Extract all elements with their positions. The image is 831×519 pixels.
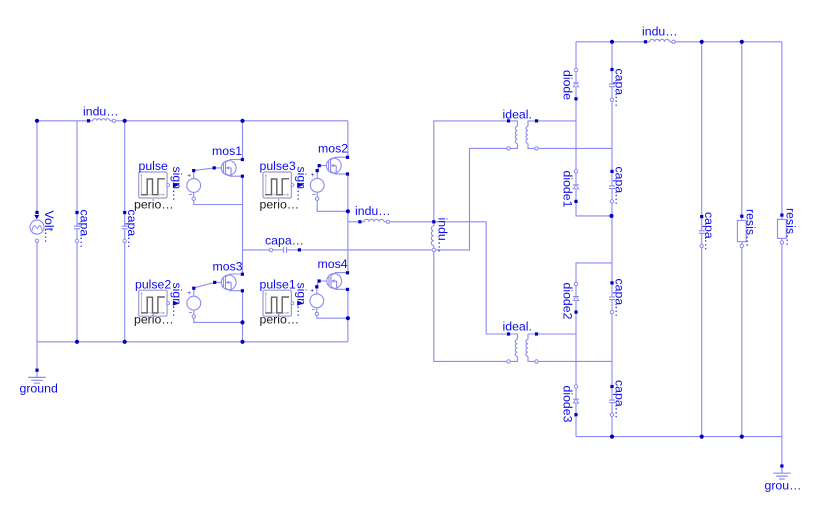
gate node square mos2 [318, 164, 321, 167]
wire mos3 source to bottom rail [242, 291, 244, 342]
svg-text:capa…: capa… [125, 210, 139, 249]
svg-text:resis…: resis… [784, 208, 798, 246]
wire diode1 to mid node [576, 201, 612, 216]
svg-text:+: + [310, 288, 314, 295]
label sign3 [294, 167, 308, 202]
wire series capacitor to transformer1 minus [301, 148, 507, 250]
svg-text:perio…: perio… [260, 313, 300, 327]
wire capacitor column 2 lower [124, 241, 126, 342]
wire pulse1 to sign4 gate link [316, 281, 327, 287]
label capa rect3 [613, 279, 627, 318]
junction secondary mid node [609, 214, 613, 218]
svg-text:diode1: diode1 [561, 171, 575, 208]
wire mos1 drain to top rail [242, 121, 244, 160]
label ground [20, 382, 58, 396]
svg-text:capa…: capa… [613, 69, 627, 108]
diode diode3 [573, 385, 579, 417]
wire node B to middle inductor [348, 221, 358, 223]
svg-text:perio…: perio… [260, 198, 300, 212]
svg-text:capa…: capa… [613, 167, 627, 206]
svg-text:−: − [189, 192, 193, 199]
junction mos4 source sign4 [346, 316, 350, 320]
label capa rect1 [613, 69, 627, 108]
wire diode chain top [575, 42, 577, 70]
label pulse3 [260, 159, 296, 173]
svg-text:ideal.: ideal. [503, 320, 532, 334]
pin mos4 drain [346, 271, 349, 274]
svg-text:Volt…: Volt… [42, 211, 56, 244]
label ideal lower [503, 320, 532, 334]
svg-text:sign…: sign… [294, 283, 308, 318]
svg-text:indu…: indu… [642, 25, 678, 39]
wire transformer2 secondary minus to capacitor chain [537, 360, 613, 362]
capacitor capa (input 2) [122, 211, 128, 243]
mosfet mos1 [221, 160, 242, 177]
svg-text:capa…: capa… [265, 234, 304, 248]
svg-text:diode3: diode3 [561, 386, 575, 423]
label capa series [265, 234, 304, 248]
junction bottom rail right at capa3 [610, 435, 614, 439]
svg-text:−: − [312, 307, 316, 314]
mosfet mos3 [221, 274, 242, 291]
label indu magnetizing [436, 218, 450, 254]
ground right [773, 464, 791, 479]
label ideal upper [503, 108, 532, 122]
junction node B sign3 [346, 209, 350, 213]
signal voltage sign2 [187, 287, 201, 318]
wire resistor2 column lower [781, 243, 783, 437]
label periodic pulse3 [260, 198, 300, 212]
svg-text:mos2: mos2 [318, 142, 348, 156]
label resis 2 [784, 208, 798, 246]
wire transformer2 secondary plus to diode chain [537, 333, 577, 335]
label periodic pulse1 [260, 313, 300, 327]
label pulse2 [135, 277, 171, 291]
wire junction to transformer1 plus [434, 121, 507, 222]
svg-text:indu…: indu… [83, 105, 119, 119]
svg-text:perio…: perio… [134, 313, 174, 327]
wire load resistor column [741, 42, 743, 216]
pulse block pulse2 [139, 290, 180, 316]
label ground right [765, 479, 802, 493]
wire diode to diode1 [575, 99, 577, 172]
wire capa to capa1 [611, 100, 613, 172]
svg-text:+: + [187, 290, 191, 297]
inductor indu (input filter) [87, 119, 116, 123]
wire mos1 source to mos3 drain (node A) [242, 176, 244, 275]
label diode2 [561, 283, 575, 320]
wire middle inductor to junction and transformer2 plus [390, 222, 507, 334]
svg-text:diode2: diode2 [561, 283, 575, 320]
pin mos3 source [241, 289, 244, 292]
wire left source column bottom [36, 243, 38, 342]
label Volt [42, 211, 56, 244]
svg-text:pulse3: pulse3 [260, 159, 296, 173]
wire diode2 to diode3 [575, 312, 577, 386]
capacitor capa (input 1) [74, 211, 80, 243]
capacitor capa rect2 [609, 170, 615, 203]
signal voltage sign3 [310, 169, 324, 200]
capacitor capa rect3 [609, 281, 615, 314]
wire capa3 to bottom rail [611, 415, 613, 437]
pin mos1 drain [241, 158, 244, 161]
resistor resis 2 [778, 214, 787, 245]
label pulse [139, 159, 169, 173]
svg-text:perio…: perio… [134, 198, 174, 212]
svg-text:ideal.: ideal. [503, 108, 532, 122]
wire capacitor column 2 [124, 121, 126, 213]
label mos1 [212, 144, 242, 158]
wire top rail right (segment 1) [576, 41, 646, 43]
transformer ideal1 (lower) [507, 332, 538, 363]
junction bottom rail at capa2 [123, 340, 127, 344]
pulse block pulse1 [263, 290, 304, 316]
label indu middle [355, 204, 391, 218]
svg-text:sign…: sign… [170, 167, 184, 202]
junction bottom rail at capa [75, 340, 79, 344]
capacitor capa output [699, 215, 705, 248]
label diode1 [561, 171, 575, 208]
label mos3 [213, 260, 243, 274]
svg-text:+: + [311, 172, 315, 179]
label resis load [744, 209, 758, 247]
label indu output [642, 25, 678, 39]
wire mos4 source to bottom rail [347, 288, 349, 342]
wire bottom rail right [576, 436, 782, 438]
svg-text:capa…: capa… [702, 212, 716, 251]
wire transformer1 secondary plus to diode chain [537, 120, 577, 122]
svg-text:capa…: capa… [613, 380, 627, 419]
label sign2 [170, 283, 184, 318]
wire load resistor column lower [741, 246, 743, 437]
svg-text:sign…: sign… [170, 283, 184, 318]
svg-text:grou…: grou… [765, 479, 802, 493]
label periodic pulse [134, 198, 174, 212]
svg-text:ground: ground [20, 382, 58, 396]
svg-text:resis…: resis… [744, 209, 758, 247]
wire mid node to diode2 [576, 263, 612, 284]
wire sign1 minus to node A [194, 200, 243, 204]
signal voltage sign1 [187, 169, 201, 200]
wire capacitor chain top [611, 42, 613, 70]
voltage source Volt [30, 211, 44, 243]
svg-text:mos4: mos4 [318, 257, 348, 271]
label capa input 2 [125, 210, 139, 249]
wire pulse to sign1 gate link [194, 168, 222, 171]
label capa input 1 [78, 210, 92, 249]
diode diode [573, 68, 579, 100]
inductor indu middle [358, 219, 389, 223]
wire resistor2 column [781, 42, 783, 215]
label mos4 [318, 257, 348, 271]
label capa output [702, 212, 716, 251]
label mos2 [318, 142, 348, 156]
svg-text:−: − [312, 192, 316, 199]
gate node square mos1 [213, 166, 216, 169]
label capa rect4 [613, 380, 627, 419]
gate node square mos4 [318, 279, 321, 282]
wire sign2 minus to mos3 source [194, 318, 243, 323]
wire sign4 minus to mos4 source [317, 315, 348, 318]
svg-text:capa…: capa… [613, 279, 627, 318]
label sign4 [294, 283, 308, 318]
capacitor capa rect1 [609, 68, 615, 102]
wire capacitor column 1 [76, 121, 78, 213]
label capa rect2 [613, 167, 627, 206]
svg-text:−: − [189, 309, 193, 316]
resistor resis load [737, 215, 746, 248]
wire bottom rail left bridge [37, 341, 348, 343]
inductor indu magnetizing [431, 220, 435, 251]
wire pulse3 to sign3 gate link [317, 166, 326, 171]
inductor indu output [644, 39, 675, 43]
signal voltage sign4 [310, 285, 324, 315]
junction top rail right at resistor [740, 40, 744, 44]
svg-text:pulse: pulse [139, 159, 169, 173]
svg-text:mos3: mos3 [213, 260, 243, 274]
gate node square mos3 [213, 281, 216, 284]
junction top rail right at capa chain [610, 40, 614, 44]
junction bottom rail right at output capa [700, 435, 704, 439]
wire top rail left bridge (segment 2) [114, 120, 348, 122]
wire pulse2 to sign2 gate link [193, 282, 221, 288]
junction top rail at mos1 leg [240, 119, 244, 123]
wire magnetizing node down to transformer2 minus [434, 250, 507, 362]
transformer ideal (upper) [507, 119, 538, 150]
junction mos3 source sign2 [240, 320, 244, 324]
mosfet mos2 [326, 157, 347, 174]
label diode [561, 70, 575, 100]
wire top rail left bridge (segment 1) [37, 120, 89, 122]
capacitor capa series [269, 247, 301, 253]
svg-text:+: + [187, 172, 191, 179]
svg-text:pulse1: pulse1 [260, 277, 296, 291]
pulse block pulse [139, 172, 180, 198]
svg-text:capa…: capa… [78, 210, 92, 249]
wire top rail right (segment 2) [674, 41, 782, 43]
wire sign3 minus to node B [317, 200, 348, 212]
diode diode2 [573, 282, 579, 314]
svg-text:indu…: indu… [436, 218, 450, 254]
wire capacitor column 1 lower [76, 241, 78, 342]
svg-text:mos1: mos1 [212, 144, 242, 158]
pin mos3 drain [241, 273, 244, 276]
pulse block pulse3 [263, 172, 304, 198]
junction top rail at source [35, 119, 39, 123]
diode diode1 [573, 170, 579, 203]
junction bottom rail right at resistor [740, 435, 744, 439]
label diode3 [561, 386, 575, 423]
pin mos2 drain [346, 156, 349, 159]
wire mos2 source to mos4 drain (node B) [347, 174, 349, 273]
wire output capacitor column [701, 42, 703, 217]
pin mos4 source [346, 288, 349, 291]
wire node A to series capacitor [243, 249, 270, 251]
junction top rail right at output capa [700, 40, 704, 44]
capacitor capa rect4 [609, 385, 615, 417]
wire left source column top [36, 121, 38, 211]
wire output capacitor column lower [701, 246, 703, 437]
junction top rail at capa2 [123, 119, 127, 123]
ground left [28, 369, 46, 384]
pin mos2 source [346, 172, 349, 175]
label periodic pulse2 [134, 313, 174, 327]
wire transformer1 secondary minus to capacitor chain [537, 147, 613, 149]
svg-text:indu…: indu… [355, 204, 391, 218]
label sign1 [170, 167, 184, 202]
svg-text:pulse2: pulse2 [135, 277, 171, 291]
label pulse1 [260, 277, 296, 291]
wire mid node to capa2 [611, 263, 613, 283]
svg-text:diode: diode [561, 70, 575, 100]
wire mos2 drain to top rail [347, 121, 349, 158]
wire ground stub right [781, 437, 783, 466]
wire capa2 to capa3 [611, 312, 613, 386]
label indu input [83, 105, 119, 119]
wire diode3 to bottom rail [575, 415, 577, 437]
svg-text:sign…: sign… [294, 167, 308, 202]
junction bottom rail at mos3 leg [240, 340, 244, 344]
wire capa1 to mid node [611, 201, 613, 263]
wire ground stub left [36, 342, 38, 370]
pin mos1 source [241, 175, 244, 178]
mosfet mos4 [327, 273, 348, 290]
